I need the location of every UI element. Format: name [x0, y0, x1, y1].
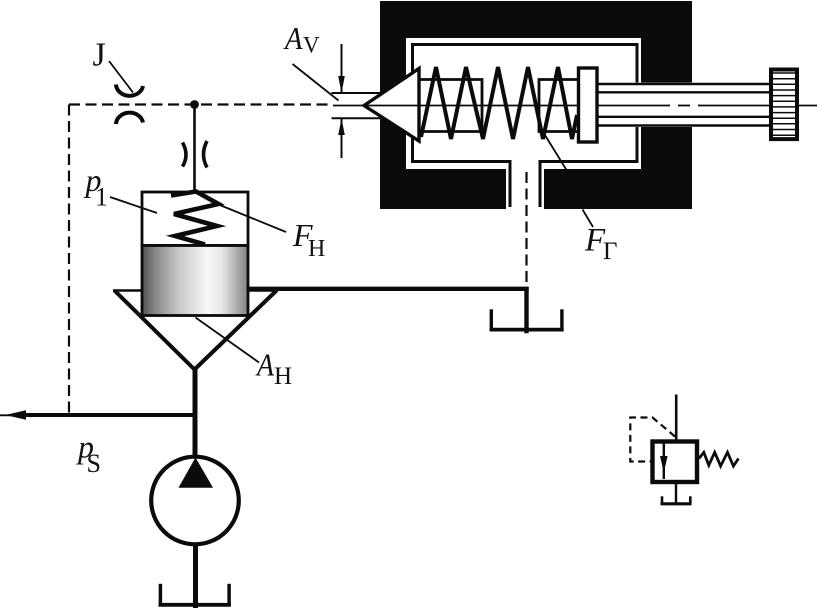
FH leader	[219, 205, 287, 233]
valve housing block	[380, 1, 692, 209]
pipe node to spring chamber	[193, 105, 196, 193]
relief valve pipe (top)	[675, 395, 678, 441]
valve spring	[421, 67, 577, 139]
tank (pump)	[159, 584, 231, 607]
svg-text:A: A	[255, 347, 274, 383]
Fgamma leader	[540, 127, 567, 170]
adjusting rod lines	[598, 84, 770, 126]
Av dimension extension lines	[332, 92, 383, 94]
svg-text:A: A	[283, 20, 303, 56]
spring retainer cup (left, on poppet)	[419, 80, 482, 132]
pilot piston (gradient)	[142, 246, 248, 316]
svg-text:1: 1	[95, 183, 108, 212]
center line (valve axis)	[333, 105, 817, 107]
svg-text:H: H	[308, 236, 325, 262]
pipe funnel to pump	[193, 368, 198, 458]
valve cavity (white)	[406, 38, 641, 169]
cavity inner outline	[413, 45, 638, 208]
funnel left tick	[113, 289, 143, 292]
funnel right slant	[195, 291, 277, 370]
svg-text:H: H	[274, 363, 292, 390]
svg-text:J: J	[93, 37, 106, 74]
line break arcs	[183, 143, 187, 167]
spring chamber box	[142, 192, 248, 246]
pump triangle	[179, 458, 214, 488]
svg-text:V: V	[303, 33, 320, 58]
J leader	[109, 61, 133, 93]
relief valve arrow	[663, 443, 665, 479]
knurled adjusting knob	[771, 70, 797, 140]
Av leader	[293, 64, 339, 101]
spring retainer cup (right, on seat)	[539, 80, 577, 132]
svg-text:Γ: Γ	[603, 238, 617, 265]
relief valve drain pipe	[675, 484, 677, 504]
svg-text:S: S	[87, 449, 101, 478]
funnel left slant	[115, 291, 195, 370]
valve outlet slot (white)	[506, 161, 544, 210]
pipe funnel to tank (horizontal)	[247, 287, 529, 291]
chamber spring	[171, 192, 219, 245]
relief valve body	[653, 442, 698, 483]
pipe drop to tank	[524, 287, 528, 333]
Av dimension arrows	[341, 44, 343, 92]
relief valve pilot (dashed)	[630, 418, 675, 462]
poppet triangle	[364, 69, 419, 142]
tank (middle)	[490, 309, 564, 331]
AH leader	[196, 318, 260, 363]
spring seat	[579, 68, 598, 142]
node junction dot	[190, 100, 199, 109]
pump circle	[151, 457, 239, 545]
relief valve spring	[699, 452, 739, 466]
arrowhead pS	[0, 414, 22, 416]
dashed pilot axis (horizontal)	[69, 103, 331, 105]
throttle J arcs	[116, 85, 143, 96]
tank (relief valve)	[661, 496, 692, 504]
pilot dashed line from outlet slot	[525, 172, 527, 288]
supply line pS	[20, 413, 198, 417]
dashed pilot line (left vertical)	[68, 105, 70, 417]
funnel right tick	[247, 289, 278, 292]
p1 leader	[110, 197, 157, 213]
rod clearance band through housing wall	[620, 83, 696, 128]
pipe pump to tank	[193, 543, 198, 608]
